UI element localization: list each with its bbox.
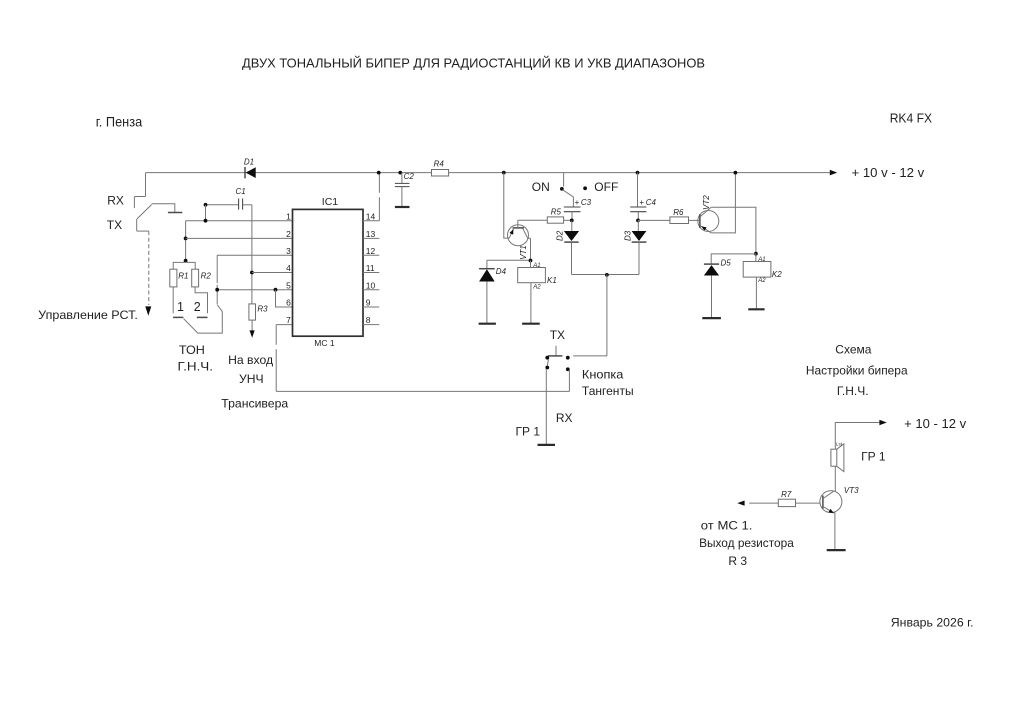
- label D1: [244, 158, 254, 167]
- svg-text:Тангенты: Тангенты: [582, 384, 634, 398]
- wire: C1 to R3 vertical: [251, 205, 253, 304]
- svg-text:ТОН: ТОН: [179, 343, 205, 357]
- capacitor C1: [239, 199, 243, 210]
- svg-text:RX: RX: [556, 411, 573, 425]
- wire: tone selector common vertical: [216, 255, 218, 304]
- svg-text:+: +: [575, 198, 580, 207]
- svg-text:14: 14: [366, 211, 376, 221]
- wire: C2 top stem: [401, 173, 403, 184]
- label Lst: [836, 441, 843, 446]
- title text: [242, 56, 705, 71]
- pin number 6: [286, 298, 291, 308]
- capacitor C4: [630, 207, 646, 212]
- node: button contact top left: [545, 356, 549, 360]
- TX contact of switch S1: [136, 219, 138, 231]
- svg-text:2: 2: [286, 229, 291, 239]
- svg-text:УНЧ: УНЧ: [239, 372, 264, 386]
- svg-text:IC1: IC1: [322, 196, 339, 208]
- label D4: [496, 267, 507, 276]
- wire: node to D2: [571, 220, 573, 231]
- wire: R7 left with arrow: [749, 502, 778, 504]
- svg-text:A1: A1: [532, 263, 540, 269]
- wire: K2 top stem: [755, 254, 757, 262]
- label Vyhod rezistora: [699, 536, 794, 550]
- ground C2: [395, 206, 410, 208]
- wire: pin 5 net: [217, 289, 292, 291]
- svg-text:VT2: VT2: [702, 195, 711, 210]
- capacitor C3: [564, 207, 581, 212]
- svg-text:RK4 FX: RK4 FX: [890, 110, 933, 125]
- label R6: [673, 208, 684, 217]
- svg-text:Lst: Lst: [836, 441, 843, 446]
- svg-text:A2: A2: [532, 285, 541, 291]
- wire: C1 right: [243, 204, 252, 206]
- wire: bottom right contact tick: [568, 371, 570, 392]
- node: ON contact: [560, 187, 564, 191]
- svg-text:10: 10: [366, 280, 376, 290]
- svg-text:На вход: На вход: [228, 353, 273, 367]
- diode D5: [704, 264, 719, 275]
- wire: pin 2 net: [186, 237, 293, 239]
- wire: R3 output stem: [251, 320, 253, 331]
- label GNCh: [178, 360, 214, 374]
- svg-text:3: 3: [286, 246, 291, 256]
- label C2: [404, 172, 415, 181]
- switch S1 arm: [137, 205, 152, 219]
- relay K1: [518, 268, 546, 283]
- label TX: [107, 218, 122, 232]
- diode D3: [632, 231, 647, 242]
- svg-text:R2: R2: [201, 272, 212, 281]
- node: bottom link junction: [605, 273, 609, 277]
- node: VT1 collector K1 D4: [529, 259, 533, 263]
- label A1 K2: [757, 257, 765, 263]
- label TX button: [550, 328, 565, 342]
- label A2 K1: [532, 285, 541, 291]
- pin number 13: [366, 229, 376, 239]
- wire: R2 to contact 2: [195, 287, 207, 313]
- switch ON arm: [563, 190, 574, 207]
- diode D4: [479, 269, 495, 282]
- svg-text:D4: D4: [496, 267, 507, 276]
- label +C4: [639, 198, 656, 207]
- resistor R1: [170, 269, 177, 287]
- ground D4: [479, 323, 496, 325]
- node: on pin1 net: [204, 219, 208, 223]
- label 2: [194, 300, 201, 314]
- wire: riser to button: [606, 275, 608, 356]
- svg-text:от МС 1.: от МС 1.: [701, 519, 753, 533]
- tone selector arm: [184, 305, 223, 333]
- contact 2 bar: [197, 316, 208, 318]
- R7 arrowhead: [737, 501, 744, 506]
- transistor VT3: [820, 491, 842, 514]
- label Nastroiki bipera: [806, 363, 908, 377]
- svg-text:C4: C4: [646, 198, 657, 207]
- label D5: [721, 259, 732, 268]
- wire: C4 bottom stem: [637, 212, 639, 221]
- label R3: [257, 305, 268, 314]
- svg-text:VT3: VT3: [844, 486, 859, 495]
- node: R5 C3 D2: [570, 219, 574, 223]
- wire: TX contact to control line: [137, 230, 149, 232]
- label A2 K2: [757, 278, 766, 284]
- node: pin2 junction: [184, 237, 188, 241]
- svg-text:C2: C2: [404, 172, 415, 181]
- wire: K1 top stem: [530, 261, 532, 268]
- pin number 11: [366, 263, 375, 273]
- wire: R6 right to VT2 base: [689, 219, 700, 221]
- wire: C3 bottom stem: [571, 212, 573, 221]
- label R2: [201, 272, 212, 281]
- wire: pin 14 riser to rail: [378, 173, 380, 221]
- svg-text:Г.Н.Ч.: Г.Н.Ч.: [178, 360, 214, 374]
- ground VT3: [827, 549, 846, 551]
- svg-text:ГР 1: ГР 1: [861, 450, 886, 464]
- svg-text:D3: D3: [624, 230, 633, 241]
- label GR 1 right: [861, 450, 886, 464]
- wire: +V supply rail: [146, 172, 831, 174]
- label Transivera: [221, 397, 288, 411]
- mini supply arrowhead: [879, 420, 886, 425]
- wire: D2 D3 bottom link: [572, 274, 640, 276]
- resistor R3: [249, 304, 256, 320]
- label Janvar 2026: [891, 616, 974, 630]
- svg-text:1: 1: [177, 300, 184, 314]
- label Na vhod: [228, 353, 273, 367]
- node: C4 R6 D3: [636, 219, 640, 223]
- svg-text:TX: TX: [107, 218, 122, 232]
- wire: pin 10 stub: [363, 289, 379, 291]
- svg-text:K1: K1: [547, 276, 557, 285]
- pin number 5: [286, 280, 291, 290]
- svg-text:+ 10 - 12 v: + 10 - 12 v: [904, 417, 967, 431]
- label R4: [434, 159, 445, 168]
- common terminal bar: [168, 212, 182, 214]
- resistor R7: [778, 499, 795, 506]
- svg-text:2: 2: [194, 300, 201, 314]
- svg-text:12: 12: [366, 246, 376, 256]
- pin number 7: [286, 315, 291, 325]
- svg-text:C3: C3: [581, 198, 592, 207]
- wire: pin 4 net: [252, 272, 293, 274]
- label +C3: [575, 198, 592, 207]
- label VT3: [844, 486, 859, 495]
- svg-text:K2: K2: [772, 270, 782, 279]
- wire: speaker to VT3: [834, 466, 836, 492]
- wire: pin 8 stub: [363, 324, 379, 326]
- node: pin6 drop junction: [274, 288, 278, 292]
- label K1: [547, 276, 557, 285]
- label IC1: [322, 196, 339, 208]
- svg-text:A1: A1: [757, 257, 765, 263]
- wire: button to riser: [573, 355, 607, 357]
- pin number 8: [366, 315, 371, 325]
- svg-text:8: 8: [366, 315, 371, 325]
- dashed control line Upravlenie RST: [148, 231, 150, 305]
- wire: R1 to contact 1: [172, 287, 174, 313]
- svg-text:D2: D2: [555, 230, 564, 241]
- wire: VT3 emitter down: [834, 512, 836, 549]
- node: rail VT1: [502, 171, 506, 175]
- label Shema: [835, 343, 871, 357]
- svg-text:R 3: R 3: [728, 554, 747, 568]
- resistor R2: [192, 269, 199, 287]
- capacitor C2: [395, 183, 410, 186]
- svg-text:Трансивера: Трансивера: [221, 397, 288, 411]
- svg-text:МС 1: МС 1: [314, 338, 335, 348]
- svg-text:Схема: Схема: [835, 343, 871, 357]
- svg-text:VT1: VT1: [519, 245, 528, 260]
- label Knopka: [582, 368, 624, 382]
- svg-text:ГР 1: ГР 1: [516, 425, 541, 439]
- label ON: [532, 180, 550, 194]
- svg-text:1: 1: [286, 211, 291, 221]
- wire: mini supply: [835, 423, 879, 450]
- node: rail C2: [398, 171, 402, 175]
- node: R1R2 junction: [184, 259, 188, 263]
- wire: D4 down: [486, 282, 488, 324]
- svg-text:D1: D1: [244, 158, 254, 167]
- label mini +10 -12 v: [904, 417, 967, 431]
- node: selector on pin5: [215, 288, 219, 292]
- wire: C1 left: [206, 204, 239, 206]
- transistor VT2: [698, 207, 719, 233]
- svg-text:9: 9: [366, 298, 371, 308]
- svg-text:13: 13: [366, 229, 376, 239]
- resistor R6: [670, 217, 689, 224]
- transistor VT1: [508, 225, 531, 246]
- label A1 K1: [532, 263, 540, 269]
- svg-text:7: 7: [286, 315, 291, 325]
- pin number 14: [366, 211, 376, 221]
- wire: K2 bottom stem: [755, 277, 757, 309]
- wire: node to D5: [711, 254, 756, 264]
- svg-text:ДВУХ ТОНАЛЬНЫЙ БИПЕР ДЛЯ РА: ДВУХ ТОНАЛЬНЫЙ БИПЕР ДЛЯ РАДИОСТАНЦИЙ КВ…: [242, 56, 705, 71]
- wire: R5 right: [564, 219, 572, 221]
- label VT1: [519, 245, 528, 260]
- node: button contact top right: [566, 356, 570, 360]
- svg-text:TX: TX: [550, 328, 565, 342]
- svg-text:+ 10 v - 12 v: + 10 v - 12 v: [852, 165, 925, 180]
- wire: switch arm to common terminal: [152, 204, 175, 212]
- supply rail arrowhead: [830, 170, 837, 176]
- svg-text:D5: D5: [721, 259, 732, 268]
- node: rail pin14: [377, 171, 381, 175]
- wire: C2 bottom stem: [401, 187, 403, 207]
- svg-text:RX: RX: [107, 194, 124, 208]
- label RX button: [556, 411, 573, 425]
- svg-text:ON: ON: [532, 180, 550, 194]
- wire: pin 12 stub: [363, 254, 379, 256]
- node: OFF contact: [583, 186, 587, 190]
- label VT2: [702, 195, 711, 210]
- label R5: [551, 207, 562, 216]
- resistor R5: [547, 217, 563, 223]
- pin number 3: [286, 246, 291, 256]
- svg-text:Управление РСТ.: Управление РСТ.: [38, 308, 138, 322]
- label GNCh 2: [837, 384, 869, 398]
- pin number 2: [286, 229, 291, 239]
- button actuator tick: [555, 346, 557, 356]
- wire: pin 11 stub: [363, 272, 379, 274]
- node: button contact bottom left: [545, 366, 549, 370]
- node: rail C4: [636, 171, 640, 175]
- node: rail VT2: [734, 171, 738, 175]
- svg-text:Г.Н.Ч.: Г.Н.Ч.: [837, 384, 869, 398]
- wire: VT1 collector node to D4: [487, 259, 531, 261]
- label R 3: [728, 554, 747, 568]
- label D3: [624, 230, 633, 241]
- label D2: [555, 230, 564, 241]
- wire: R7 right to VT3 base: [796, 502, 820, 504]
- label MC 1: [314, 338, 335, 348]
- wire: D4 top stem: [486, 260, 488, 269]
- wire: ON switch stem: [563, 173, 565, 187]
- diode D1 cathode bar: [244, 167, 246, 178]
- node: pin4 junction: [250, 271, 254, 275]
- wire: pin 1 net: [186, 220, 293, 222]
- svg-text:R7: R7: [781, 490, 792, 499]
- wire: pin 6 stub: [276, 290, 293, 307]
- wire: pin7 down: [275, 325, 277, 392]
- wire: VT1 base stem: [517, 220, 519, 228]
- wire: bridge to R1 R2: [173, 262, 195, 269]
- pin number 4: [286, 263, 291, 273]
- wire: VT1 collector down: [530, 238, 532, 260]
- wire: D3 down: [638, 242, 640, 274]
- svg-text:OFF: OFF: [594, 180, 618, 194]
- label Tangenty: [582, 384, 634, 398]
- svg-text:5: 5: [286, 280, 291, 290]
- diode D1: [246, 167, 256, 178]
- label +10v -12v: [852, 165, 925, 180]
- button bridge bar: [548, 355, 563, 357]
- svg-text:+: +: [639, 198, 644, 207]
- wire: left vertical bus: [185, 221, 187, 263]
- wire: pin 3 net: [217, 254, 292, 256]
- node: VT2 collector D5 K2: [754, 252, 758, 256]
- wire: step to RX contact: [134, 196, 145, 198]
- svg-text:A2: A2: [757, 278, 766, 284]
- wire: pin 13 stub: [363, 237, 379, 239]
- wire: C4 top stem: [637, 173, 639, 207]
- svg-text:C1: C1: [236, 187, 246, 196]
- ground K1: [522, 323, 540, 325]
- node: C1 left top: [204, 203, 208, 207]
- svg-text:г. Пенза: г. Пенза: [96, 114, 143, 130]
- control line arrowhead: [145, 306, 151, 315]
- svg-text:Январь 2026 г.: Январь 2026 г.: [891, 616, 974, 630]
- wire: R5 left: [518, 219, 548, 221]
- note RK4 FX: [890, 110, 933, 125]
- label R7: [781, 490, 792, 499]
- wire: rail down to RX/TX switch: [145, 173, 147, 197]
- label OFF: [594, 180, 618, 194]
- ground K2: [748, 308, 764, 310]
- wire: pin 14 stub: [363, 220, 379, 222]
- pin number 1: [286, 211, 291, 221]
- svg-text:11: 11: [366, 263, 375, 273]
- svg-text:6: 6: [286, 298, 291, 308]
- label 1: [177, 300, 184, 314]
- label K2: [772, 270, 782, 279]
- label ot MC 1: [701, 519, 753, 533]
- wire: pin 9 stub: [363, 306, 379, 308]
- svg-text:R3: R3: [257, 305, 268, 314]
- pin number 9: [366, 298, 371, 308]
- RX contact of switch S1: [133, 197, 135, 209]
- speaker GR1: [831, 444, 844, 472]
- wire: R6 left: [638, 219, 670, 221]
- wire: node to D3: [637, 220, 639, 231]
- pin number 10: [366, 280, 376, 290]
- wire: rail down to VT1 emitter: [504, 173, 510, 239]
- svg-text:Выход резистора: Выход резистора: [699, 536, 794, 550]
- relay K2: [743, 262, 771, 278]
- wire: RX line to ground: [545, 369, 547, 444]
- wire: VT2 emitter to rail: [711, 173, 735, 233]
- svg-text:R4: R4: [434, 159, 445, 168]
- ground GR1: [538, 444, 556, 446]
- resistor R4: [432, 170, 449, 177]
- svg-text:Кнопка: Кнопка: [582, 368, 624, 382]
- svg-text:R5: R5: [551, 207, 562, 216]
- wire: C1 drop to pin1 net: [205, 205, 207, 221]
- pin number 12: [366, 246, 376, 256]
- op-amp IC1 box: [293, 209, 364, 336]
- label R1: [178, 272, 188, 281]
- wire: K1 bottom stem: [530, 283, 532, 324]
- contact 1 bar: [173, 316, 183, 318]
- diode D2: [564, 231, 579, 242]
- wire: D5 down: [711, 276, 713, 318]
- svg-text:Настройки бипера: Настройки бипера: [806, 363, 908, 377]
- label RX: [107, 194, 124, 208]
- wire: VT2 collector run: [711, 207, 756, 254]
- R3 output arrowhead: [250, 330, 255, 337]
- wire: pin 7 stub: [276, 324, 292, 326]
- label Upravlenie RST: [38, 308, 138, 322]
- label GR 1: [516, 425, 541, 439]
- svg-text:R6: R6: [673, 208, 684, 217]
- svg-text:4: 4: [286, 263, 291, 273]
- label UNCh: [239, 372, 264, 386]
- svg-text:R1: R1: [178, 272, 188, 281]
- node: button contact bottom right: [566, 367, 570, 371]
- note g.Penza: [96, 114, 143, 130]
- wire: bottom long run to button: [276, 390, 569, 392]
- wire: D2 down: [571, 242, 573, 274]
- button left contact link: [547, 359, 548, 366]
- label C1: [236, 187, 246, 196]
- ground D5: [702, 317, 721, 319]
- label TON: [179, 343, 205, 357]
